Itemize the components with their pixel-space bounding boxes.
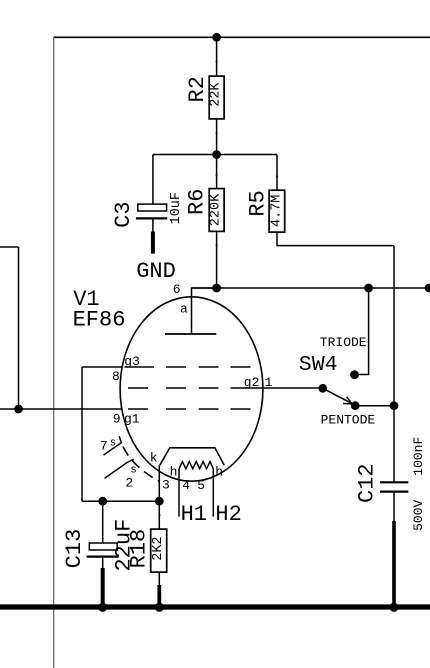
node junction right edge	[425, 284, 430, 293]
resistor R5	[269, 190, 285, 232]
resistor R18	[151, 529, 167, 572]
svg-text:SW4: SW4	[299, 353, 338, 377]
svg-text:C13: C13	[62, 529, 87, 569]
svg-text:H1: H1	[181, 502, 207, 527]
wire R18 top lead	[158, 501, 160, 529]
svg-text:h: h	[170, 465, 178, 480]
wire left vertical from top rail down to bottom edge	[53, 37, 55, 668]
wire PENTODE contact to C12 line	[355, 405, 394, 407]
svg-text:h: h	[215, 465, 223, 480]
svg-text:100nF: 100nF	[411, 437, 426, 476]
svg-text:C12: C12	[355, 463, 380, 503]
node junction rail R18	[155, 603, 164, 612]
svg-text:TRIODE: TRIODE	[320, 335, 367, 350]
svg-text:s: s	[110, 438, 117, 450]
node junction cathode / R18	[155, 497, 164, 506]
svg-text:10uF: 10uF	[169, 192, 184, 224]
node TRIODE contact	[350, 370, 359, 379]
svg-text:C3: C3	[111, 201, 136, 227]
wire R5 bottom lead to corner	[277, 232, 394, 246]
wire anode node horizontal to right edge	[192, 287, 430, 289]
node junction rail C12	[389, 603, 398, 612]
svg-text:22K: 22K	[209, 82, 224, 107]
node junction rail C13	[98, 603, 107, 612]
wire C3 top lead	[152, 155, 154, 205]
svg-text:2: 2	[125, 476, 133, 491]
svg-text:R2: R2	[185, 76, 210, 102]
svg-text:k: k	[150, 451, 158, 466]
wire left vertical x=18	[18, 247, 20, 409]
svg-text:7: 7	[100, 438, 108, 453]
pin end R2 bottom	[216, 132, 218, 134]
svg-text:4: 4	[182, 478, 190, 493]
wire cathode pin 3 lead	[158, 465, 160, 501]
wire heater pin 4 lead	[178, 469, 180, 517]
pin end R2 top	[216, 61, 218, 63]
ground GND bar under C3	[151, 232, 155, 254]
wire R2 top lead	[216, 37, 218, 76]
pin end R6 top	[216, 174, 218, 176]
wire C13 bottom lead thick	[101, 568, 105, 605]
shield dashed arc	[123, 447, 160, 482]
svg-text:8: 8	[112, 369, 120, 384]
grid g2 dashes	[128, 387, 219, 389]
node junction pentode / C12	[390, 401, 399, 410]
pin end R6 bottom	[216, 245, 218, 247]
wire C13 bottom lead thin	[102, 557, 104, 570]
wire anode pin 6 lead	[192, 288, 217, 334]
wire C3 bottom lead	[152, 218, 154, 233]
svg-text:g2: g2	[244, 375, 260, 390]
wire g1 pin 9 lead from left edge	[0, 408, 122, 410]
wire R18 bottom lead thin	[158, 572, 160, 587]
capacitor C12 plate top	[380, 481, 408, 483]
wire left edge stub at y=247	[0, 246, 19, 248]
resistor R2	[209, 76, 224, 119]
svg-text:PENTODE: PENTODE	[321, 412, 376, 427]
heater filament zigzag	[179, 462, 213, 469]
grid g1 dashes	[128, 408, 251, 410]
pin 2 lead	[105, 459, 134, 478]
svg-text:EF86: EF86	[73, 308, 126, 333]
wire node horizontal C3 to R5	[153, 154, 277, 156]
wire heater pin 5 lead	[212, 469, 214, 517]
svg-text:4.7M: 4.7M	[270, 195, 285, 227]
capacitor C3 negative plate	[136, 217, 167, 219]
wire g3 pin 8 lead	[82, 366, 123, 368]
wire TRIODE branch vertical	[355, 288, 369, 375]
wire C12 bottom lead thin	[393, 492, 395, 522]
capacitor C13 negative plate	[87, 555, 119, 557]
node switch pole	[318, 384, 327, 393]
capacitor C13 positive plate	[89, 543, 117, 550]
grid g3 dashes	[125, 366, 251, 368]
svg-text:9: 9	[113, 412, 121, 427]
svg-text:3: 3	[162, 477, 170, 492]
wire vertical R5 corner down to C12	[393, 246, 395, 483]
cathode structure	[160, 448, 224, 465]
wire R2 bottom lead	[216, 119, 218, 155]
capacitor C12 plate bottom	[380, 491, 408, 493]
wire g2 pin 1 lead to switch pole	[231, 387, 323, 389]
wire R18 bottom lead thick	[157, 585, 161, 605]
ground rail thick bottom	[0, 604, 430, 609]
wire g3 vertical down	[81, 367, 83, 501]
pin end R18 top	[158, 514, 160, 516]
svg-text:5: 5	[197, 478, 205, 493]
svg-text:R6: R6	[184, 189, 209, 215]
wire C12 bottom lead thick	[392, 521, 396, 605]
node junction top rail / R2	[212, 33, 221, 42]
node PENTODE contact	[351, 401, 360, 410]
anode plate bar	[165, 333, 216, 335]
capacitor C3 positive plate	[138, 204, 167, 211]
svg-text:R18: R18	[126, 529, 151, 569]
svg-text:R5: R5	[246, 190, 271, 216]
node junction R6 bottom / anode	[212, 284, 221, 293]
pin 7 lead	[104, 436, 122, 455]
node junction left	[14, 405, 23, 414]
node junction C13 top	[98, 497, 107, 506]
switch SW4 arm with arrow	[323, 388, 352, 403]
svg-text:g3: g3	[124, 354, 140, 369]
tube V1 envelope	[120, 297, 263, 481]
wire cathode node horizontal	[82, 500, 159, 502]
svg-text:a: a	[180, 302, 188, 317]
svg-text:GND: GND	[136, 259, 176, 284]
svg-text:6: 6	[173, 282, 181, 297]
wire R6 bottom lead	[216, 231, 218, 288]
svg-text:g1: g1	[124, 411, 140, 426]
wire R6 top lead	[216, 155, 218, 189]
svg-text:2K2: 2K2	[151, 536, 166, 560]
pin end R5 top	[276, 176, 278, 178]
svg-text:220K: 220K	[209, 193, 224, 226]
node junction TRIODE branch	[364, 284, 373, 293]
resistor R6	[209, 189, 224, 232]
wire C13 top lead	[102, 501, 104, 543]
wire top HT rail horizontal	[54, 36, 430, 38]
svg-text:1: 1	[265, 375, 273, 390]
svg-text:500V: 500V	[411, 500, 426, 531]
wire R5 top lead	[276, 155, 278, 191]
node junction R2 / C3 / R6 / R5	[212, 150, 221, 159]
svg-text:H2: H2	[215, 502, 241, 527]
